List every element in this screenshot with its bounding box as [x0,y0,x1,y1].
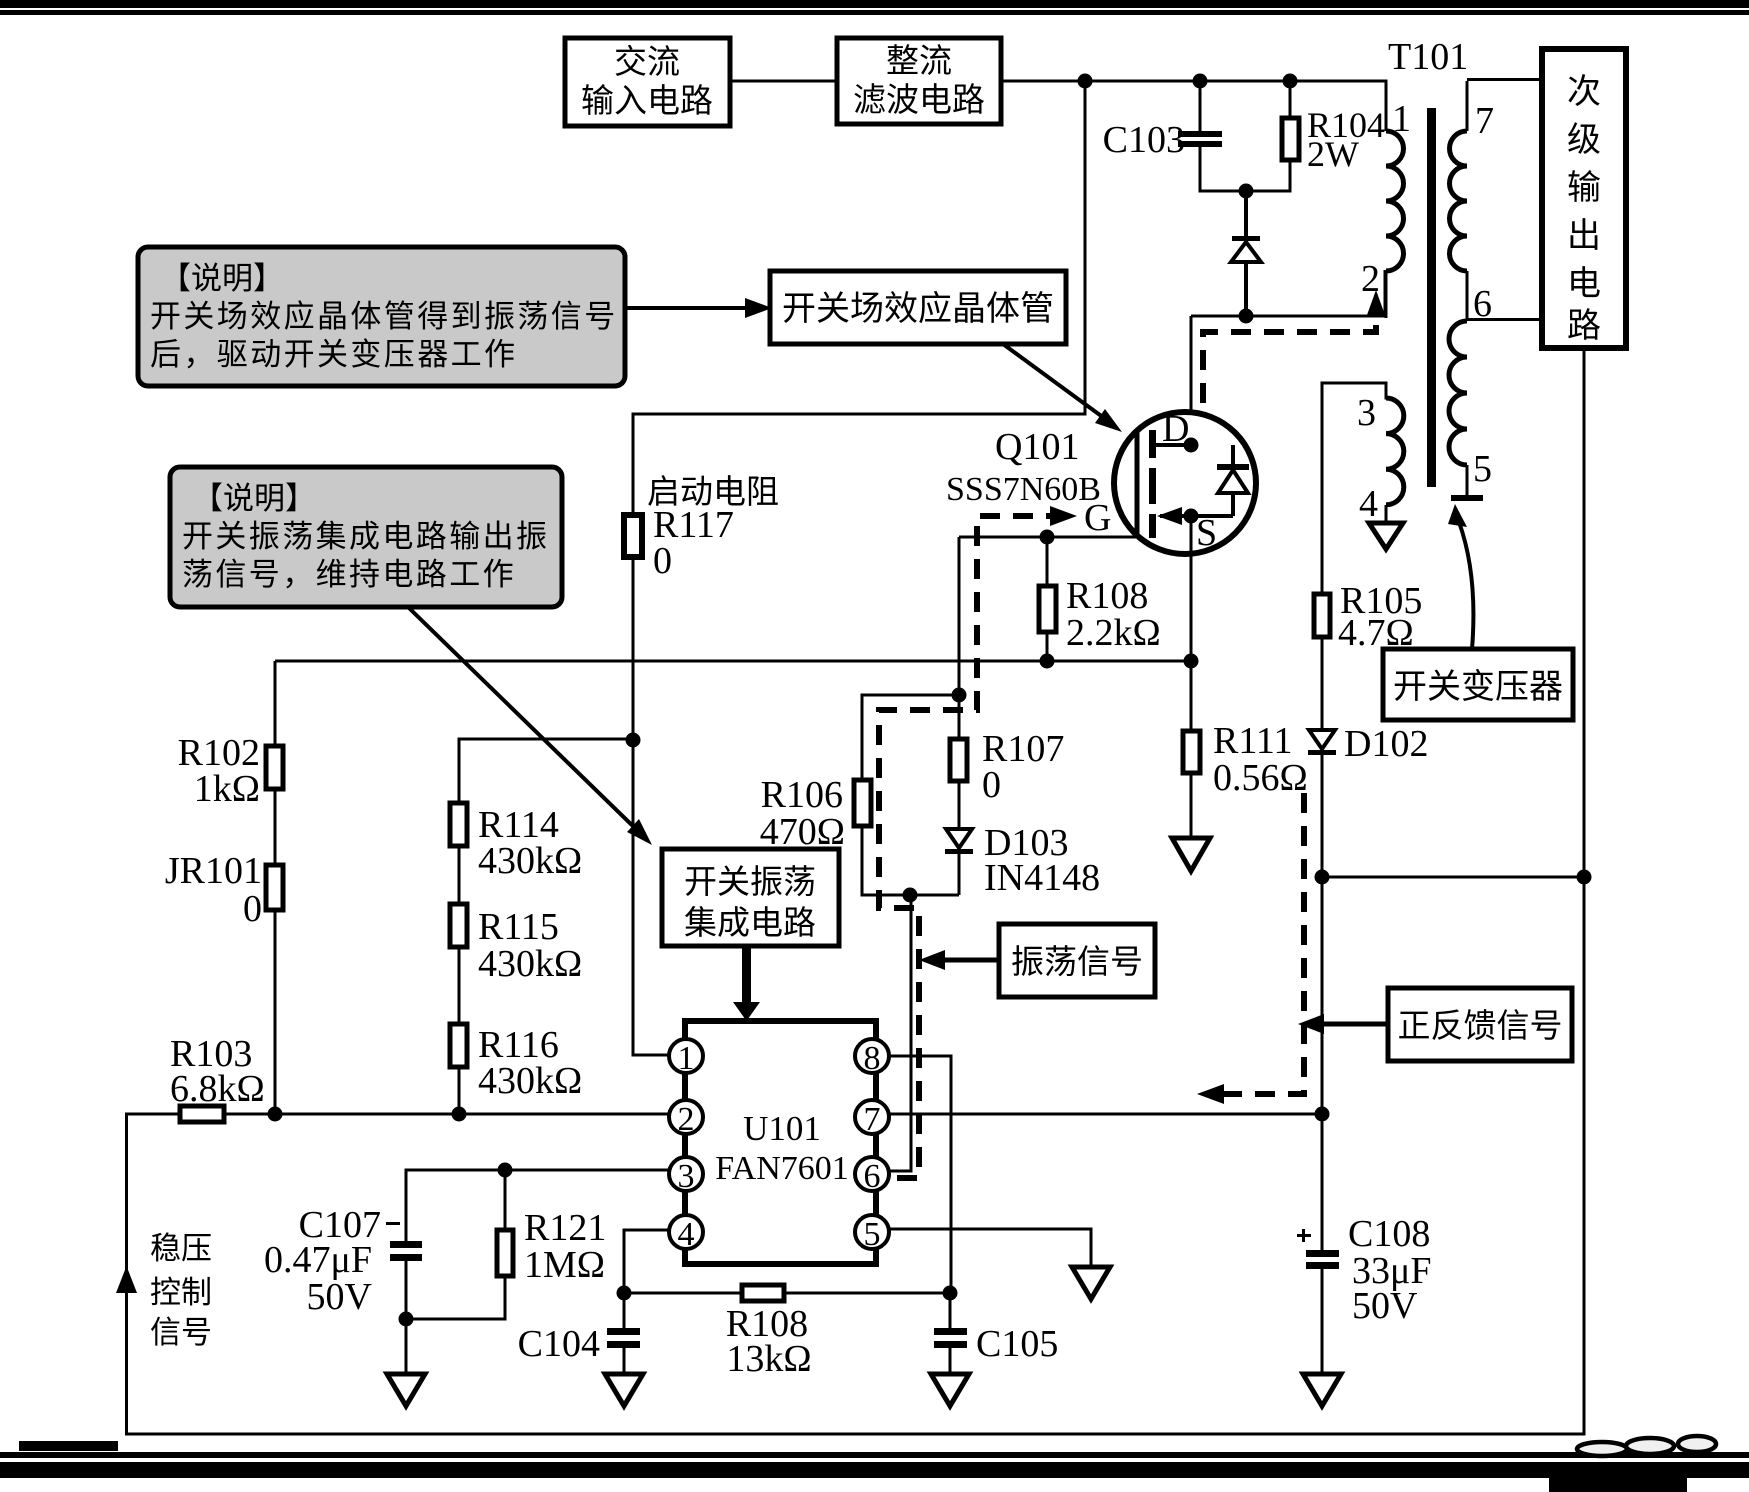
svg-text:C108: C108 [1348,1213,1430,1255]
svg-text:开关振荡: 开关振荡 [684,864,816,901]
svg-text:R106: R106 [761,774,843,816]
wire HV rail top [1001,80,1386,83]
label box 开关场效应晶体管 [770,271,1066,344]
svg-text:交流: 交流 [614,44,680,81]
junction gate network bottom [903,888,918,903]
label SSS7N60B [946,471,1101,508]
Q101 channel bar [1149,430,1156,538]
svg-text:滤波电路: 滤波电路 [853,82,985,119]
wire drain vertical [1190,316,1193,445]
block 整流滤波电路 [837,38,1001,124]
svg-text:1: 1 [1392,98,1411,140]
pin 1 [669,1039,703,1077]
svg-text:C105: C105 [976,1323,1058,1365]
junction feedback right [1577,870,1592,885]
svg-text:开关变压器: 开关变压器 [1393,668,1563,706]
wire pin3 [406,1169,669,1172]
svg-text:7: 7 [864,1101,881,1138]
pin label S [1196,512,1217,554]
svg-text:1MΩ: 1MΩ [524,1244,605,1286]
transformer aux winding pins 3-4 [1386,398,1404,523]
Q101 gate bar [1135,431,1140,535]
Q101 source lead with arrow [1157,507,1233,525]
junction pin4 / bottom net [617,1286,632,1301]
arrow fet label to Q101 [1003,344,1122,432]
junction source line [1184,654,1199,669]
op-amp U101 body [685,1021,876,1264]
resistor R107 [950,695,1064,829]
arrow regulation control up [116,1266,137,1293]
svg-text:开关振荡集成电路输出振: 开关振荡集成电路输出振 [182,519,549,554]
svg-text:集成电路: 集成电路 [684,905,816,942]
svg-text:0.47μF: 0.47μF [264,1239,372,1281]
label box 开关振荡集成电路 [662,849,839,946]
svg-text:50V: 50V [307,1276,373,1318]
svg-text:2.2kΩ: 2.2kΩ [1066,612,1161,654]
pin label 6 [1473,283,1492,325]
wire bias long horizontal [275,660,1191,663]
wire startup vertical drop [1084,81,1087,414]
wire circuit bottom border [125,1433,1586,1436]
ground pin5 [1072,1267,1110,1299]
svg-text:R108: R108 [1066,575,1148,617]
callout note box 1 [138,247,625,386]
junction snubber / diode [1239,184,1254,199]
svg-text:1kΩ: 1kΩ [194,768,260,810]
junction feedback left [1315,870,1330,885]
svg-text:IN4148: IN4148 [984,857,1100,899]
svg-text:路: 路 [1567,307,1601,345]
svg-text:4: 4 [1359,483,1378,525]
arrow osc label to U101 [733,946,760,1021]
footer bar extension [1549,1478,1687,1492]
svg-text:2: 2 [678,1101,695,1138]
resistor R102 [178,661,283,810]
ground C107 [387,1374,425,1406]
label Q101 [995,426,1079,468]
svg-text:C103: C103 [1103,119,1185,161]
junction pin3 / R121 [498,1163,513,1178]
wire R105 rail to C108 [1321,877,1324,1250]
svg-text:整流: 整流 [886,43,952,80]
capacitor C103 [1103,81,1222,191]
wire snubber bottom [1199,190,1292,193]
wire feedback horizontal y877 [1322,876,1584,879]
wire pin2 riser [1384,270,1387,318]
wire pin4 [624,1230,669,1293]
transformer T101 primary winding pins 1-2 [1386,80,1404,319]
svg-text:正反馈信号: 正反馈信号 [1398,1008,1563,1045]
pin 2 [669,1100,703,1138]
resistor R114 [450,739,582,882]
ground source [1172,838,1210,871]
transformer core [1427,108,1436,487]
wire pin7 [889,1113,1322,1116]
transformer secondary winding pins 7-6 [1450,80,1542,322]
capacitor C108 [1297,1213,1432,1374]
junction y1114 right [1315,1107,1330,1122]
svg-text:430kΩ: 430kΩ [478,1060,582,1102]
junction source [1184,509,1199,524]
pin label 5 [1473,448,1492,490]
header bar second [0,10,1749,15]
capacitor C107 [264,1169,422,1375]
svg-text:6: 6 [1473,283,1492,325]
svg-text:430kΩ: 430kΩ [478,840,582,882]
svg-text:R115: R115 [478,906,559,948]
svg-text:R111: R111 [1213,720,1293,762]
footer thick bar [0,1462,1749,1478]
resistor R117 startup [624,414,779,740]
svg-text:次: 次 [1567,73,1601,111]
pin 4 [669,1215,703,1253]
svg-text:2W: 2W [1307,134,1359,174]
callout note box 2 [170,467,562,607]
resistor R106 [760,695,959,895]
svg-text:8: 8 [864,1040,881,1077]
transistor Q101 body circle [1114,412,1256,554]
junction diode / drain wire [1239,309,1254,324]
pin 8 [855,1039,889,1077]
wire between blocks [730,80,837,83]
svg-text:0.56Ω: 0.56Ω [1213,757,1308,799]
svg-text:【说明】: 【说明】 [160,261,284,296]
pin 3 [669,1157,703,1195]
svg-text:4: 4 [678,1216,695,1253]
diode D103 [945,822,1100,899]
svg-text:电: 电 [1567,265,1601,303]
footer short bar left [19,1441,118,1451]
pin label D [1162,408,1189,450]
svg-text:50V: 50V [1352,1285,1418,1327]
wire network bottom to pin6 [910,895,913,1173]
footer scribble marks [1577,1436,1716,1456]
Q101 drain lead [1156,443,1191,447]
svg-text:U101: U101 [743,1109,821,1148]
junction C107 bottom [399,1312,414,1327]
pin label 7 [1475,100,1494,142]
wire R117 down to U101 pin1 [632,740,671,1057]
arrow transformer pointer [1448,504,1473,649]
wire left control vertical [125,1114,128,1436]
wire source down [1190,516,1193,661]
resistor R108 gate [1039,537,1161,661]
pin label 2 [1361,258,1380,300]
svg-text:0: 0 [653,540,672,582]
pin 5 [855,1215,889,1253]
resistor R121 [406,1170,606,1319]
junction HV rail / R104 [1283,74,1298,89]
resistor R103 [170,1033,265,1122]
svg-text:出: 出 [1567,217,1601,255]
svg-text:13kΩ: 13kΩ [726,1338,811,1380]
resistor R115 [450,846,582,985]
pin label 1 [1392,98,1411,140]
label box 正反馈信号 [1388,988,1572,1061]
svg-text:6: 6 [864,1158,881,1195]
label 稳压控制信号 [150,1231,212,1350]
svg-text:振荡信号: 振荡信号 [1011,944,1143,981]
ground C108 [1303,1374,1341,1406]
wire bottom net [624,1292,950,1295]
svg-text:3: 3 [1357,392,1376,434]
svg-text:SSS7N60B: SSS7N60B [946,471,1101,508]
svg-text:D102: D102 [1344,723,1428,765]
wire gate horizontal [959,536,1137,539]
ground C105 [931,1374,969,1406]
diode D102 [1308,723,1428,877]
arrow 正反馈信号 to dashed path [1298,1014,1388,1034]
svg-text:6.8kΩ: 6.8kΩ [170,1068,265,1110]
svg-text:T101: T101 [1388,36,1468,78]
svg-text:5: 5 [864,1216,881,1253]
svg-text:控制: 控制 [150,1275,212,1310]
label box 振荡信号 [999,924,1155,997]
pin label G [1084,497,1111,539]
wire drain to pin2 [1191,315,1385,318]
svg-text:Q101: Q101 [995,426,1079,468]
junction HV rail / C103 [1193,74,1208,89]
pin 7 [855,1100,889,1138]
ground C104 [605,1374,643,1406]
junction y1114 / divider chain [452,1107,467,1122]
svg-text:0: 0 [243,888,262,930]
footer thin rule [0,1452,1749,1458]
resistor R108 timing [726,1285,812,1380]
header bar top [0,0,1749,8]
label T101 [1388,36,1468,78]
dashed drain-to-pin2 signal path [1203,290,1385,403]
pin label 3 [1357,392,1376,434]
svg-text:开关场效应晶体管: 开关场效应晶体管 [782,290,1054,328]
junction C105 top [943,1286,958,1301]
capacitor C105 [934,1293,1058,1374]
junction y1114 / R102 chain [268,1107,283,1122]
svg-text:JR101: JR101 [165,850,262,892]
svg-text:后，驱动开关变压器工作: 后，驱动开关变压器工作 [150,337,517,372]
svg-text:R121: R121 [524,1207,606,1249]
arrow note1 to fet label [627,298,772,318]
svg-text:C104: C104 [518,1323,600,1365]
resistor R116 [450,947,582,1114]
svg-text:1: 1 [678,1040,695,1077]
ground aux winding [1369,523,1403,549]
svg-text:430kΩ: 430kΩ [478,943,582,985]
wire feedback y1114 left [125,1113,670,1116]
junction gate resistor top [1040,530,1055,545]
svg-text:输: 输 [1567,169,1601,207]
svg-text:级: 级 [1567,121,1601,159]
dashed oscillation signal path to gate [879,506,1077,1178]
pin 6 [855,1157,889,1195]
label box 开关变压器 [1383,649,1573,720]
svg-text:5: 5 [1473,448,1492,490]
wire pin5 [889,1229,1091,1267]
capacitor C104 [518,1293,640,1374]
block 交流输入电路 [565,38,730,126]
wire pin8 [889,1056,951,1293]
svg-text:信号: 信号 [150,1315,212,1350]
svg-text:稳压: 稳压 [150,1231,212,1266]
wire startup horizontal to R117 [632,413,1087,416]
wire divider chain top [458,738,634,741]
resistor JR101 [165,789,283,1114]
arrow note2 to osc label [408,607,652,845]
svg-text:输入电路: 输入电路 [581,83,713,120]
svg-text:0: 0 [982,764,1001,806]
block 次级输出电路 [1542,49,1626,348]
svg-text:3: 3 [678,1158,695,1195]
svg-text:荡信号，维持电路工作: 荡信号，维持电路工作 [182,557,516,592]
transformer secondary winding pin 6-5 [1449,321,1483,501]
svg-text:FAN7601: FAN7601 [715,1150,849,1187]
junction gate resistor bottom [1040,654,1055,669]
arrow 振荡信号 to dashed path [919,950,999,970]
svg-text:D: D [1162,408,1189,450]
junction R117 / divider chain [626,733,641,748]
svg-text:S: S [1196,512,1217,554]
resistor R104 [1282,81,1385,191]
pin label 4 [1359,483,1378,525]
junction drain [1184,438,1199,453]
wire pin6 [889,1170,911,1173]
svg-text:【说明】: 【说明】 [192,481,316,516]
svg-text:开关场效应晶体管得到振荡信号: 开关场效应晶体管得到振荡信号 [150,299,618,334]
svg-text:7: 7 [1475,100,1494,142]
junction HV rail / startup branch [1078,74,1093,89]
resistor R105 [1314,580,1422,730]
wire right rail lower [1583,348,1586,1436]
wire aux to R105 [1322,383,1386,594]
wire gate drop [958,537,961,695]
snubber diode [1231,191,1261,316]
Q101 body diode [1217,445,1249,516]
junction gate network top [952,688,967,703]
resistor R111 [1183,661,1308,838]
dashed positive feedback path [1197,793,1304,1104]
